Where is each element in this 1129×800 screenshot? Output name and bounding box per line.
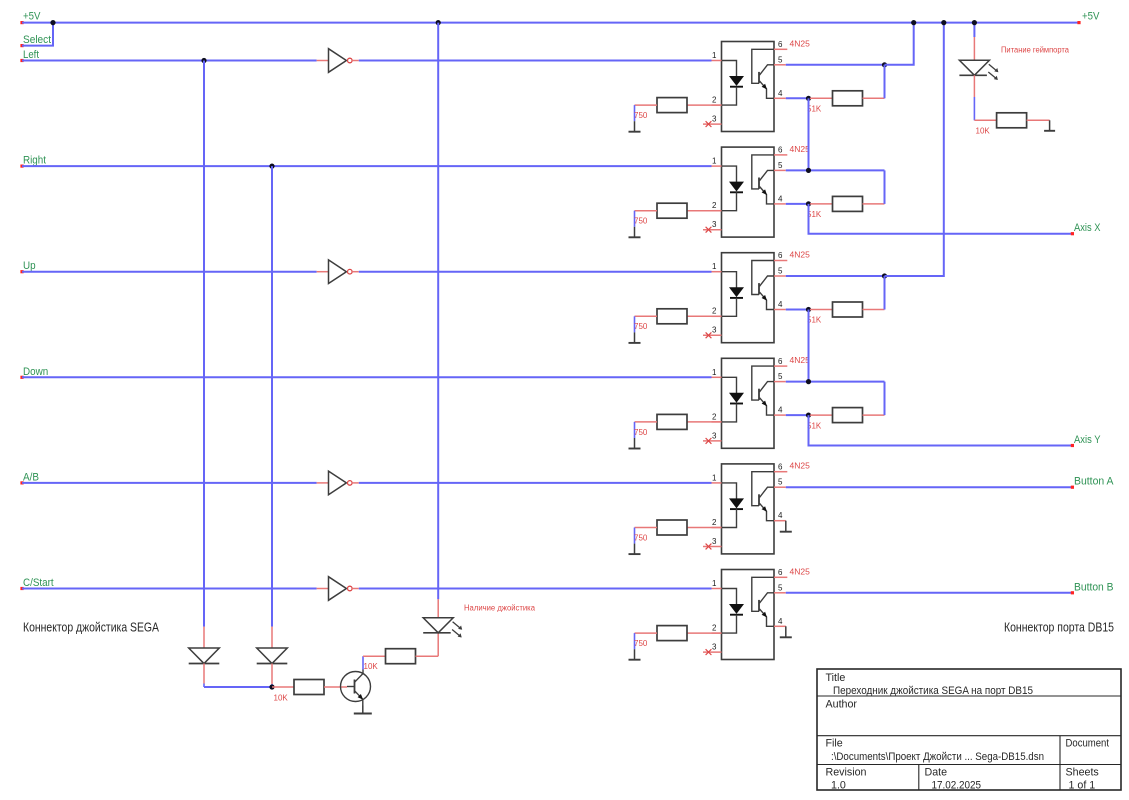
U2 pin 4 stub	[774, 203, 786, 205]
title block Date label	[925, 767, 948, 779]
U1 value 4N25	[790, 38, 811, 48]
svg-text:Button A: Button A	[1074, 476, 1114, 488]
inverter Left	[329, 49, 353, 73]
svg-text:Up: Up	[23, 260, 36, 272]
net label +5V left	[23, 11, 41, 23]
wire R750 to ground (U1)	[635, 105, 658, 121]
junction U3 pin5 / R51K	[882, 273, 887, 278]
U5 pin 1 stub	[712, 482, 722, 484]
resistor R51K-1	[833, 91, 863, 106]
U2 pin 4 number	[778, 194, 783, 203]
wire +5V LED column vertical	[437, 23, 439, 600]
resistor R51K-2	[833, 196, 863, 211]
wire U4 pin4 net	[786, 414, 810, 416]
inverter C/Start	[329, 577, 353, 601]
svg-text:Date: Date	[925, 767, 948, 779]
svg-text:2: 2	[712, 412, 717, 421]
U2 pin 3 stub	[703, 229, 722, 231]
resistor R51K-4	[833, 408, 863, 423]
svg-text:4N25: 4N25	[790, 250, 811, 260]
U2 pin 2 number	[712, 201, 717, 210]
U4 pin 4 stub	[774, 414, 786, 416]
U3 pin 1 number	[712, 262, 717, 271]
junction +5V rail / U3 branch	[941, 20, 946, 25]
pin Button B	[1071, 591, 1074, 594]
wire U2 pin5 net	[786, 169, 885, 171]
optocoupler U4 internal LED	[722, 377, 744, 422]
svg-text:4N25: 4N25	[790, 461, 811, 471]
wire Left to inverter	[22, 60, 317, 62]
U4 pin 2 stub	[712, 421, 722, 423]
svg-text:2: 2	[712, 96, 717, 105]
wire R10K-2 to LED D4	[416, 633, 439, 656]
label Наличие джойстика	[464, 604, 536, 613]
caption DB15 connector	[1004, 621, 1114, 635]
U2 pin 5 stub	[774, 169, 786, 171]
wire +5V rail	[22, 22, 1079, 24]
title block Document label	[1066, 738, 1110, 750]
wire inverter Up to opto	[359, 271, 712, 273]
optocoupler U2 4N25 body	[722, 147, 775, 237]
U4 pin 5 number	[778, 372, 783, 381]
U3 pin 3 number	[712, 326, 717, 335]
wire Up to inverter	[22, 271, 317, 273]
wire R10K-1 to Q1 base	[324, 686, 347, 688]
wire R51K-1 to pin5 net	[863, 65, 885, 99]
svg-text:750: 750	[634, 428, 648, 437]
net label Select	[23, 34, 51, 46]
U6 pin 6 number	[778, 568, 783, 577]
resistor R51K-3	[833, 302, 863, 317]
U4 pin 3 no-connect X	[706, 438, 712, 444]
svg-text:2: 2	[712, 624, 717, 633]
svg-text:2: 2	[712, 518, 717, 527]
ground (U6 input side)	[629, 649, 641, 660]
svg-text:Axis Y: Axis Y	[1074, 434, 1101, 446]
net label +5V right	[1082, 11, 1100, 23]
net label Button A	[1074, 476, 1114, 488]
U5 value 4N25	[790, 461, 811, 471]
svg-text:17.02.2025: 17.02.2025	[932, 780, 982, 792]
title block title value	[833, 685, 1033, 697]
U1 pin 4 number	[778, 89, 783, 98]
ground (U6 pin4)	[780, 626, 792, 637]
inverter Up input stub	[317, 271, 329, 273]
pin +5V right	[1077, 21, 1080, 24]
U6 pin 3 stub	[703, 651, 722, 653]
U2 pin 5 number	[778, 161, 783, 170]
wire R750 to ground (U2)	[635, 211, 658, 227]
svg-text:1: 1	[712, 579, 717, 588]
svg-text:4: 4	[778, 617, 783, 626]
wire U4 pin4 to Axis Y	[809, 415, 1073, 445]
inverter C/Start input stub	[317, 588, 329, 590]
junction +5V/Select	[50, 20, 55, 25]
svg-text:6: 6	[778, 357, 783, 366]
ground (gameport LED)	[1044, 120, 1055, 131]
U1 pin 1 stub	[712, 60, 722, 62]
U5 pin 1 number	[712, 473, 717, 482]
U1 pin 4 stub	[774, 97, 786, 99]
wire U3 pin4 to R51K-3	[810, 309, 833, 311]
net label Right	[23, 155, 46, 167]
ground (Q1 emitter)	[354, 706, 372, 714]
svg-text:10K: 10K	[976, 127, 991, 136]
resistor R10K-1	[294, 680, 324, 695]
U1 pin 5 number	[778, 55, 783, 64]
wire U4 pin5 net	[786, 381, 885, 383]
inverter Up output stub	[352, 271, 359, 273]
U4 value 4N25	[790, 355, 811, 365]
wire U3 pin5 to +5V rail	[885, 23, 944, 276]
U3 pin 1 stub	[712, 271, 722, 273]
value 10K (R10K-3)	[976, 127, 991, 136]
value 10K (R10K-2)	[364, 662, 379, 671]
optocoupler U2 internal LED	[722, 166, 744, 211]
U3 value 4N25	[790, 250, 811, 260]
title block File label	[826, 738, 843, 750]
U4 pin 2 number	[712, 412, 717, 421]
svg-text:Author: Author	[826, 699, 858, 711]
value 51K (R51K-1)	[807, 105, 822, 114]
ground (U3 input side)	[629, 332, 641, 343]
wire U3 pin2 to R750	[687, 315, 722, 317]
U2 pin 1 stub	[712, 165, 722, 167]
wire U2 pin4 to R51K-2	[810, 203, 833, 205]
wire Q1 collector to R10K-2	[363, 656, 386, 669]
pin Axis X	[1071, 232, 1074, 235]
svg-text:750: 750	[634, 322, 648, 331]
U2 pin 6 number	[778, 146, 783, 155]
U1 pin 2 stub	[712, 104, 722, 106]
svg-text:6: 6	[778, 251, 783, 260]
resistor R750 (U2)	[657, 203, 687, 218]
resistor R10K-2	[386, 649, 416, 664]
svg-text:3: 3	[712, 537, 717, 546]
svg-text:4N25: 4N25	[790, 355, 811, 365]
U6 pin 5 number	[778, 583, 783, 592]
svg-text:4: 4	[778, 300, 783, 309]
svg-text:2: 2	[712, 307, 717, 316]
junction U4 pin5	[806, 379, 811, 384]
U4 pin 5 stub	[774, 381, 786, 383]
U4 pin 4 number	[778, 406, 783, 415]
svg-text:3: 3	[712, 431, 717, 440]
label Питание геймпорта	[1001, 46, 1070, 55]
wire U1 pin5 net	[786, 64, 885, 66]
resistor R750 (U6)	[657, 626, 687, 641]
svg-text:Коннектор порта DB15: Коннектор порта DB15	[1004, 621, 1114, 635]
wire D3 cathode to R10K-3	[974, 75, 996, 120]
svg-text:4N25: 4N25	[790, 566, 811, 576]
U3 pin 6 stub	[774, 260, 787, 262]
optocoupler U3 internal LED	[722, 272, 744, 317]
wire U1 pin2 to R750	[687, 104, 722, 106]
wire C/Start to inverter	[22, 588, 317, 590]
wire U6 pin2 to R750	[687, 632, 722, 634]
pin +5V left	[20, 21, 23, 24]
ground (U2 input side)	[629, 227, 641, 238]
wire A/B to inverter	[22, 482, 317, 484]
wire R750 to ground (U4)	[635, 422, 658, 438]
pin Select	[20, 44, 23, 47]
resistor R750 (U1)	[657, 98, 687, 113]
wire U4 pin2 to R750	[687, 421, 722, 423]
wire R750 to ground (U5)	[635, 528, 658, 544]
wire R10K-3 to ground	[1027, 119, 1050, 121]
wire R750 to ground (U3)	[635, 316, 658, 332]
U4 pin 1 number	[712, 368, 717, 377]
pin Up	[20, 270, 23, 273]
svg-text:5: 5	[778, 478, 783, 487]
U2 pin 3 no-connect X	[706, 227, 712, 233]
optocoupler U6 internal LED	[722, 589, 744, 634]
junction Right column	[269, 164, 274, 169]
optocoupler U4 4N25 body	[722, 358, 775, 448]
title block sheets value	[1069, 780, 1096, 792]
optocoupler U5 4N25 body	[722, 464, 775, 554]
svg-text:5: 5	[778, 583, 783, 592]
wire U5 pin5 to Button A	[786, 486, 1072, 488]
inverter A/B input stub	[317, 482, 329, 484]
wire U2 pin4 net	[786, 203, 810, 205]
svg-text:4N25: 4N25	[790, 144, 811, 154]
wire U1 pin4 down to U2 pin5	[808, 98, 810, 170]
wire inverter A/B to opto	[359, 482, 712, 484]
wire +5V to LED D3	[973, 23, 975, 61]
svg-text:4: 4	[778, 406, 783, 415]
U5 pin 3 no-connect X	[706, 544, 712, 550]
junction +5V / LED column	[436, 20, 441, 25]
optocoupler U3 4N25 body	[722, 253, 775, 343]
optocoupler U6 4N25 body	[722, 570, 775, 660]
pin Right	[20, 165, 23, 168]
U1 pin 6 number	[778, 40, 783, 49]
U2 pin 1 number	[712, 157, 717, 166]
U3 pin 2 stub	[712, 315, 722, 317]
junction Left column	[201, 58, 206, 63]
U5 pin 6 stub	[774, 471, 787, 473]
wire U5 pin2 to R750	[687, 527, 722, 529]
U4 pin 6 number	[778, 357, 783, 366]
pin Left	[20, 59, 23, 62]
junction U4 pin4	[806, 413, 811, 418]
resistor R750 (U3)	[657, 309, 687, 324]
caption SEGA connector	[23, 621, 160, 635]
wire U1 pin4 net	[786, 97, 810, 99]
svg-text:Title: Title	[826, 672, 846, 684]
svg-text:Питание геймпорта: Питание геймпорта	[1001, 46, 1070, 55]
wire Select riser	[22, 23, 53, 46]
svg-text:Revision: Revision	[826, 767, 867, 779]
pin Axis Y	[1071, 444, 1074, 447]
svg-text:Переходник джойстика SEGA на п: Переходник джойстика SEGA на порт DB15	[833, 685, 1033, 697]
svg-text:6: 6	[778, 568, 783, 577]
svg-text:10K: 10K	[274, 694, 289, 703]
U1 pin 5 stub	[774, 64, 786, 66]
title block Sheets label	[1066, 767, 1099, 779]
wire U2 pin4 to Axis X	[809, 204, 1073, 234]
svg-text:5: 5	[778, 55, 783, 64]
svg-text:5: 5	[778, 161, 783, 170]
U4 pin 3 stub	[703, 440, 722, 442]
svg-text:Select: Select	[23, 34, 51, 46]
value 51K (R51K-4)	[807, 421, 822, 430]
optocoupler U1 internal LED	[722, 61, 744, 106]
inverter Left input stub	[317, 60, 329, 62]
svg-text:Left: Left	[23, 49, 39, 61]
svg-text:1: 1	[712, 368, 717, 377]
wire R51K-2 to U2 pin5 net	[863, 170, 885, 204]
svg-text:750: 750	[634, 533, 648, 542]
U6 pin 1 number	[712, 579, 717, 588]
value 750 (U5)	[634, 533, 648, 542]
wire U3 pin4 net	[786, 309, 810, 311]
U3 pin 4 stub	[774, 309, 786, 311]
resistor R10K-3	[997, 113, 1027, 128]
svg-text:4: 4	[778, 89, 783, 98]
net label Left	[23, 49, 39, 61]
svg-text:5: 5	[778, 372, 783, 381]
junction U2 pin4	[806, 201, 811, 206]
U5 pin 4 stub	[774, 520, 786, 522]
U6 pin 1 stub	[712, 588, 722, 590]
junction +5V rail / U1 branch	[911, 20, 916, 25]
optocoupler U1 4N25 body	[722, 42, 775, 132]
value 10K (R10K-1)	[274, 694, 289, 703]
wire D1 to bottom net	[203, 664, 205, 688]
svg-text::\Documents\Проект Джойсти ...: :\Documents\Проект Джойсти ... Sega-DB15…	[831, 751, 1044, 763]
wire Left column vertical	[203, 61, 205, 627]
U2 value 4N25	[790, 144, 811, 154]
diode D1	[189, 648, 220, 664]
LED D4 (joystick presence)	[423, 618, 462, 638]
U5 pin 5 number	[778, 478, 783, 487]
svg-text:1: 1	[712, 157, 717, 166]
net label Axis X	[1074, 222, 1101, 234]
svg-text:4: 4	[778, 511, 783, 520]
wire U3 pin5 net	[786, 275, 885, 277]
svg-text:1: 1	[712, 473, 717, 482]
pin Button A	[1071, 486, 1074, 489]
LED D3 (gameport power)	[959, 60, 998, 80]
svg-text:Right: Right	[23, 155, 46, 167]
junction +5V rail / D3	[972, 20, 977, 25]
title block Author label	[826, 699, 858, 711]
svg-text:2: 2	[712, 201, 717, 210]
ground (U5 pin4)	[780, 521, 792, 532]
svg-text:A/B: A/B	[23, 471, 39, 483]
optocoupler U3 internal phototransistor	[752, 261, 774, 310]
wire U1 pin5 to +5V rail	[885, 23, 914, 65]
U2 pin 6 stub	[774, 154, 787, 156]
U6 pin 3 no-connect X	[706, 649, 712, 655]
title block Revision label	[826, 767, 867, 779]
svg-text:File: File	[826, 738, 843, 750]
U1 pin 3 number	[712, 115, 717, 124]
title block Title label	[826, 672, 846, 684]
svg-text:5: 5	[778, 267, 783, 276]
junction U1 pin4	[806, 96, 811, 101]
U6 pin 4 number	[778, 617, 783, 626]
U6 value 4N25	[790, 566, 811, 576]
U5 pin 3 stub	[703, 546, 722, 548]
wire U3 pin4 down to U4 pin5	[808, 310, 810, 382]
U6 pin 6 stub	[774, 576, 787, 578]
inverter Up	[329, 260, 353, 284]
svg-text:6: 6	[778, 462, 783, 471]
wire R51K-3 to pin5 net	[863, 276, 885, 310]
wire inverter Left to opto	[359, 60, 712, 62]
U3 pin 3 stub	[703, 334, 722, 336]
svg-text:Document: Document	[1066, 738, 1110, 750]
title block revision value	[831, 780, 846, 792]
wire R51K-4 to U4 pin5 net	[863, 382, 885, 416]
svg-text:Sheets: Sheets	[1066, 767, 1099, 779]
U3 pin 6 number	[778, 251, 783, 260]
U2 pin 2 stub	[712, 210, 722, 212]
transistor Q1 (NPN)	[341, 670, 371, 706]
U5 pin 2 stub	[712, 527, 722, 529]
junction bottom net	[269, 684, 274, 689]
net label A/B	[23, 471, 39, 483]
U2 pin 3 number	[712, 220, 717, 229]
U3 pin 5 number	[778, 267, 783, 276]
U5 pin 3 number	[712, 537, 717, 546]
inverter A/B output stub	[352, 482, 359, 484]
U3 pin 4 number	[778, 300, 783, 309]
svg-text:4N25: 4N25	[790, 38, 811, 48]
value 51K (R51K-3)	[807, 316, 822, 325]
svg-text:1 of 1: 1 of 1	[1069, 780, 1096, 792]
svg-text:Button B: Button B	[1074, 581, 1114, 593]
U5 pin 4 number	[778, 511, 783, 520]
svg-text:+5V: +5V	[23, 11, 41, 23]
resistor R750 (U5)	[657, 520, 687, 535]
svg-text:Наличие джойстика: Наличие джойстика	[464, 604, 536, 613]
svg-text:6: 6	[778, 146, 783, 155]
value 750 (U2)	[634, 217, 648, 226]
svg-text:6: 6	[778, 40, 783, 49]
wire U1 pin4 to R51K-1	[810, 97, 833, 99]
svg-text:3: 3	[712, 115, 717, 124]
U6 pin 5 stub	[774, 592, 786, 594]
value 51K (R51K-2)	[807, 210, 822, 219]
U5 pin 6 number	[778, 462, 783, 471]
U3 pin 5 stub	[774, 275, 786, 277]
wire U4 pin4 to R51K-4	[810, 414, 833, 416]
pin Down	[20, 376, 23, 379]
net label Down	[23, 366, 48, 378]
svg-text:C/Start: C/Start	[23, 577, 54, 589]
optocoupler U4 internal phototransistor	[752, 366, 774, 415]
U6 pin 2 stub	[712, 632, 722, 634]
ground (U1 input side)	[629, 121, 641, 132]
svg-text:750: 750	[634, 217, 648, 226]
svg-text:1: 1	[712, 262, 717, 271]
ground (U4 input side)	[629, 438, 641, 449]
svg-text:750: 750	[634, 639, 648, 648]
net label Button B	[1074, 581, 1114, 593]
U4 pin 1 stub	[712, 376, 722, 378]
inverter C/Start output stub	[352, 588, 359, 590]
U4 pin 6 stub	[774, 365, 787, 367]
wire U2 pin2 to R750	[687, 210, 722, 212]
U1 pin 1 number	[712, 51, 717, 60]
U3 pin 3 no-connect X	[706, 332, 712, 338]
pin C/Start	[20, 587, 23, 590]
svg-text:3: 3	[712, 326, 717, 335]
